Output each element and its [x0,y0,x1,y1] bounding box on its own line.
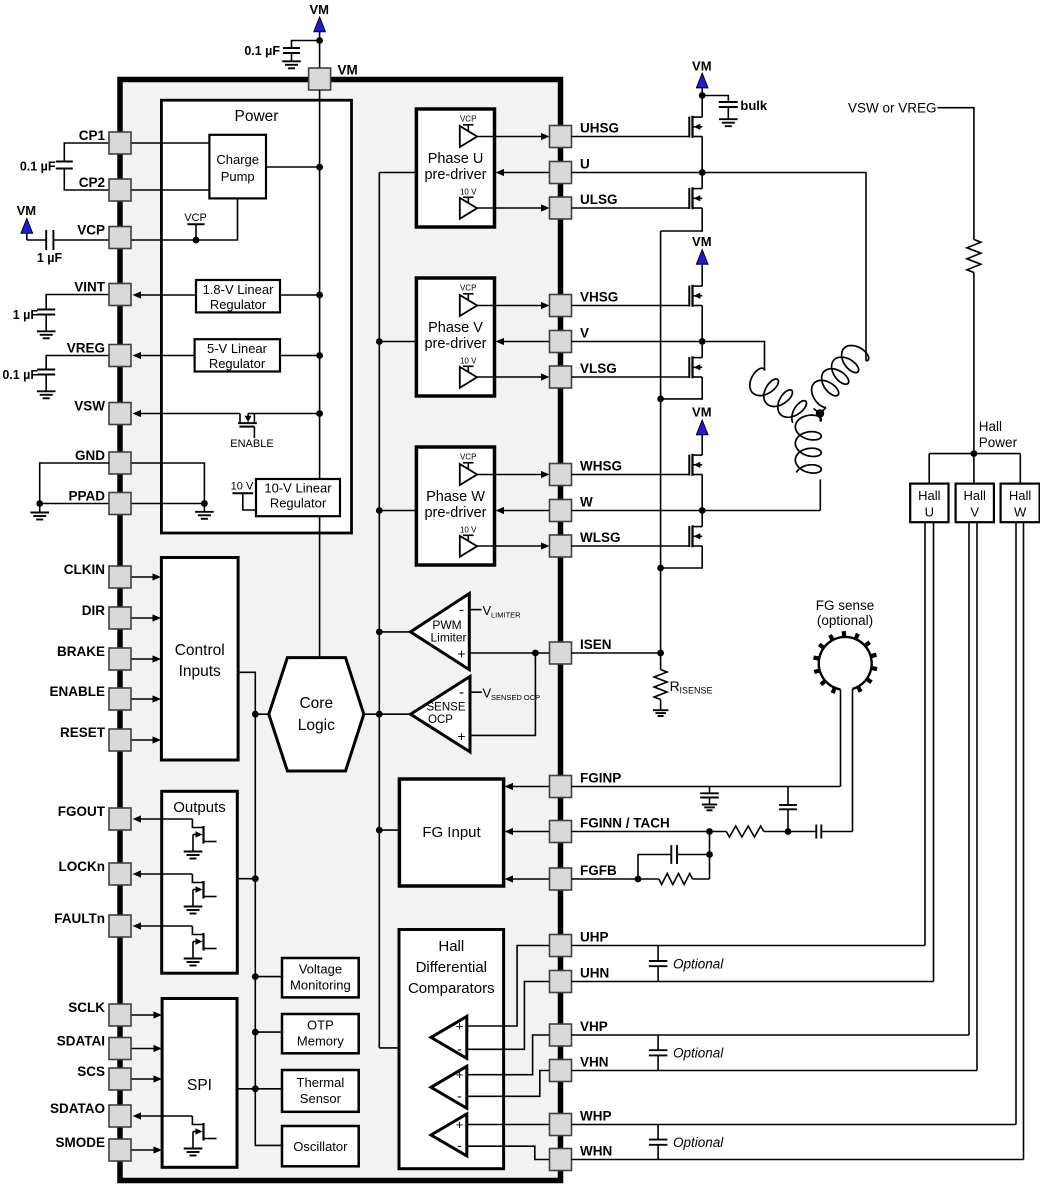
wire bus to Outputs block [237,878,255,880]
hall power node [971,419,1018,457]
svg-text:Phase V: Phase V [428,320,483,336]
1.8-V linear regulator [196,280,280,312]
svg-text:+: + [456,1019,464,1034]
motor winding W (bottom coil) [795,414,821,511]
pin RESET [60,725,131,751]
svg-text:Phase U: Phase U [428,151,484,167]
svg-text:GND: GND [75,448,105,463]
wire resistor to hall power node [973,273,975,454]
svg-text:FAULTn: FAULTn [54,911,105,926]
svg-text:0.1 µF: 0.1 µF [20,160,56,174]
svg-text:SENSE: SENSE [427,702,466,714]
capacitor 0.1 uF at VREG with ground [2,356,109,399]
wire SDATAI into SPI with arrow [131,1045,162,1052]
pin VREG [67,341,131,367]
pin FGFB [550,863,617,890]
hall sensor V [956,484,994,523]
wire regulator to VREG pin with arrow [133,352,195,359]
svg-text:SCLK: SCLK [68,1000,105,1015]
wire 1.8-V regulator to VM rail [280,292,323,299]
ground at R_ISENSE [653,700,669,717]
OTP memory block [282,1014,359,1053]
sense bus vertical [657,231,664,670]
pin V [550,326,590,353]
svg-text:bulk: bulk [740,98,767,113]
svg-text:Limiter: Limiter [430,631,466,645]
pin VM (top) [309,63,358,91]
Power block [161,100,351,533]
capacitor FGINP to FGINN [779,787,797,835]
svg-text:FGFB: FGFB [580,863,617,878]
svg-text:+: + [457,728,465,744]
svg-text:FG Input: FG Input [422,824,481,841]
capacitor 0.1 uF at VM pin with ground [244,41,319,69]
svg-text:VM: VM [338,63,358,78]
svg-text:SDATAO: SDATAO [50,1101,105,1116]
pin WHP [550,1109,612,1136]
V_LIMITER reference [469,603,521,620]
svg-text:VCP: VCP [184,212,207,224]
wire FG sense left lead to FGINP [840,690,842,787]
svg-text:V: V [580,326,589,341]
phase U pre-driver block [416,109,549,227]
pin ULSG [550,192,618,219]
svg-text:Power: Power [235,108,279,125]
Outputs block [162,791,238,973]
phase V pre-driver block [416,278,549,396]
VM supply arrow (bulk) [692,59,712,88]
phase W pre-driver block [416,447,549,565]
svg-text:V: V [970,505,979,520]
pin WLSG [550,530,621,557]
hall W output wires [1016,522,1024,1159]
wire charge pump to VCP pin [131,198,238,243]
FG Input block [399,779,503,886]
wire V node [572,306,765,371]
wire UHP to comparator U plus [504,946,550,1027]
hall sensor W [1001,484,1040,523]
svg-text:FGOUT: FGOUT [58,804,106,819]
optional capacitor VHP-VHN [649,1035,724,1071]
svg-text:Regulator: Regulator [270,496,327,511]
VCP supply tap symbol [184,212,207,240]
svg-text:Voltage: Voltage [299,962,342,977]
resistor hall power pullup [967,240,981,273]
VM supply arrow (VCP bypass) [17,203,37,233]
wire 5-V regulator to VM rail [280,352,323,359]
pin PPAD [68,489,131,515]
thermal sensor block [282,1070,359,1112]
svg-text:VCP: VCP [460,453,476,462]
wire PWM limiter output [379,631,410,633]
svg-text:Core: Core [299,695,333,712]
charge pump U2 [209,135,266,199]
svg-text:+: + [457,646,465,662]
wire VHN line [572,1070,978,1072]
svg-text:Hall: Hall [918,488,941,503]
svg-text:U: U [925,505,934,520]
wire bus to Voltage Monitoring [255,976,282,978]
svg-text:Comparators: Comparators [408,980,495,997]
svg-text:-: - [457,1040,462,1056]
wire FGINP line [572,786,841,788]
wire VM arrow to VM pin [316,32,323,68]
svg-text:U: U [580,157,590,172]
wire VHN to comparator V minus [504,1071,550,1097]
wire WHN line [572,1159,1024,1161]
IC body outline [120,80,561,1181]
svg-text:Monitoring: Monitoring [290,978,351,993]
svg-text:Optional: Optional [673,1046,724,1061]
VSW switch transistor (ENABLE) [133,410,324,450]
svg-text:VINT: VINT [74,280,106,295]
svg-text:VREG: VREG [67,341,105,356]
wire W pin into phase W pre-driver [496,507,550,514]
pin FGINN / TACH [550,816,670,843]
pin ISEN [550,637,612,664]
wire WHP line [572,1124,1017,1126]
svg-text:VM: VM [17,203,37,218]
wire UHN line [572,981,934,983]
svg-text:Sensor: Sensor [300,1091,342,1106]
wire DIR into Control Inputs with arrow [131,614,161,621]
svg-text:10 V: 10 V [231,481,254,493]
pin SMODE [55,1135,131,1161]
svg-text:BRAKE: BRAKE [57,644,105,659]
svg-text:VHP: VHP [580,1019,608,1034]
wire CLKIN into Control Inputs with arrow [131,573,161,580]
pin UHP [550,930,609,957]
svg-text:ISEN: ISEN [580,637,612,652]
svg-text:-: - [459,602,464,619]
wire Control Inputs to core logic [238,672,269,717]
svg-text:Charge: Charge [216,152,259,167]
wire FGFB into FG Input with arrow [505,875,550,882]
svg-text:Optional: Optional [673,957,724,972]
svg-text:+: + [456,1067,464,1082]
transistor Q1 high-side U [572,116,703,138]
svg-text:Phase W: Phase W [426,489,485,505]
svg-text:-: - [459,684,464,701]
svg-text:Pump: Pump [221,169,255,184]
FGFB feedback capacitor [635,845,713,882]
transistor Q3 high-side V [572,285,703,307]
svg-text:ENABLE: ENABLE [49,684,105,699]
wire core logic output to comparators [364,711,411,718]
svg-text:10 V: 10 V [460,188,477,197]
svg-text:VCP: VCP [77,223,105,238]
wire UHN to comparator U minus [504,982,550,1050]
svg-text:PPAD: PPAD [68,489,105,504]
wire CP2 to charge pump [131,189,209,191]
svg-text:Hall: Hall [963,488,986,503]
svg-text:VHSG: VHSG [580,290,618,305]
pin DIR [82,603,131,629]
transistor Q6 low-side W [572,511,703,548]
wire ISEN to sense resistor [572,652,661,654]
svg-text:-: - [457,1137,462,1153]
pin VCP [77,223,131,249]
svg-text:Hall: Hall [1009,488,1032,503]
svg-text:10-V Linear: 10-V Linear [264,481,332,496]
capacitor C_CP 0.1 uF between CP1 and CP2 [20,143,109,190]
pin CLKIN [64,562,131,588]
pin W [550,495,594,522]
motor winding V (left coil) [750,368,807,423]
wire 10-V regulator to core logic [319,516,321,657]
VM supply arrow (top) [309,2,329,32]
capacitor 1 uF at VINT with ground [13,295,109,339]
svg-text:UHP: UHP [580,930,609,945]
wire FG sense right lead [852,689,854,832]
open-drain transistor for FGOUT [184,819,217,859]
svg-text:SCS: SCS [77,1064,105,1079]
sense OCP comparator [411,677,471,752]
svg-text:Differential: Differential [416,959,487,976]
Hall differential comparators block [399,930,504,1169]
pin SDATAO [50,1101,131,1127]
wire LOCKn with arrow [133,870,193,877]
pin SCS [77,1064,131,1090]
svg-text:R: R [670,678,680,694]
svg-text:Control: Control [175,642,225,659]
svg-text:OCP: OCP [428,714,453,726]
control bus vertical [252,714,282,1145]
optional capacitor WHP-WHN [649,1125,724,1160]
pin LOCKn [59,859,132,885]
svg-text:W: W [580,495,593,510]
V_SENSED OCP reference [470,686,540,703]
svg-text:pre-driver: pre-driver [424,167,486,183]
svg-text:Regulator: Regulator [210,297,267,312]
svg-text:Oscillator: Oscillator [293,1139,348,1154]
svg-text:VCP: VCP [460,115,476,124]
svg-text:Hall: Hall [979,419,1002,434]
wire CP1 to charge pump [131,142,209,144]
svg-text:RESET: RESET [60,725,106,740]
svg-text:VLSG: VLSG [580,361,617,376]
pin FGINP [550,771,622,798]
svg-text:ISENSE: ISENSE [680,686,713,696]
svg-text:VM: VM [309,2,329,17]
PWM limiter comparator [411,594,470,670]
svg-text:1 µF: 1 µF [37,251,63,265]
open-drain transistor for FAULTn [184,926,217,966]
wire W node [572,475,821,514]
svg-text:WLSG: WLSG [580,530,621,545]
svg-text:VM: VM [692,234,712,249]
svg-text:0.1 µF: 0.1 µF [2,368,38,382]
wire VSW or VREG to resistor [938,108,974,240]
wire WHN to comparator W minus [504,1146,550,1159]
svg-text:LIMITER: LIMITER [491,611,521,620]
svg-text:FGINP: FGINP [580,771,621,786]
10 V supply tap symbol [231,481,256,511]
svg-text:ENABLE: ENABLE [230,438,273,450]
hall U output wires [925,522,934,981]
pin VLSG [550,361,617,388]
svg-text:LOCKn: LOCKn [59,859,106,874]
hall V output wires [969,522,977,1070]
pin SCLK [68,1000,131,1026]
pin UHSG [550,121,620,148]
svg-text:VSW or VREG: VSW or VREG [848,101,937,116]
svg-text:W: W [1014,505,1027,520]
motor star node [814,408,827,418]
transistor Q4 low-side V [572,342,703,379]
hall power distribution wires [929,454,1020,484]
wire VM to high-side V [701,264,703,286]
wire VHP to comparator V plus [504,1035,550,1075]
wire FGOUT with arrow [133,815,193,822]
pin BRAKE [57,644,131,670]
optional capacitor UHP-UHN [649,946,724,982]
svg-text:OTP: OTP [307,1018,334,1033]
svg-text:pre-driver: pre-driver [424,505,486,521]
svg-text:UHN: UHN [580,966,609,981]
wire UHP line [572,945,926,947]
wire FAULTn with arrow [133,922,193,929]
open-drain transistor for SDATAO [184,1116,217,1156]
wire V pin into phase V pre-driver [496,338,550,345]
VM supply arrow (phase V) [692,234,712,264]
svg-text:CLKIN: CLKIN [64,562,105,577]
svg-text:+: + [456,1117,464,1132]
wire GND/PPAD external ground [30,463,109,520]
Control Inputs block [161,558,238,761]
svg-text:WHSG: WHSG [580,459,622,474]
svg-text:1 µF: 1 µF [13,308,39,322]
5-V linear regulator [195,339,280,371]
svg-text:0.1 µF: 0.1 µF [244,44,280,58]
svg-text:SPI: SPI [187,1077,212,1094]
series capacitor on FGINN [816,825,852,839]
wire ENABLE into Control Inputs with arrow [131,695,161,702]
motor winding U (right coil) [812,346,869,408]
capacitor FGINP to ground [700,787,719,811]
pin VHSG [550,290,619,317]
svg-text:1.8-V Linear: 1.8-V Linear [203,282,274,297]
pin UHN [550,966,610,993]
hall comparator V [431,1066,504,1108]
pin WHSG [550,459,623,486]
wire FGINN into FG Input with arrow [505,828,550,835]
FGFB feedback resistor [572,832,710,885]
transistor Q5 high-side W [572,454,703,476]
VM rail from VM pin [319,90,321,479]
svg-text:Inputs: Inputs [179,663,221,680]
pre-driver feed bus [376,173,417,1048]
transistor Q2 low-side U [572,173,703,210]
wire VM to high-side W [701,435,703,455]
pin FGOUT [58,804,131,830]
open-drain transistor for LOCKn [184,874,217,914]
pin U [550,157,590,184]
wire SCLK into SPI with arrow [131,1011,162,1018]
svg-text:CP1: CP1 [79,128,106,143]
wire WHP to comparator W plus [504,1124,550,1126]
svg-text:(optional): (optional) [817,613,873,628]
pin GND [75,448,131,474]
svg-text:Regulator: Regulator [209,356,266,371]
core logic block [269,658,364,771]
wire U node [572,137,867,362]
wire SDATAO with arrow [133,1112,193,1119]
10-V linear regulator [256,479,340,516]
SPI block [162,999,237,1168]
VM supply arrow (phase W) [692,405,712,435]
svg-text:Power: Power [979,435,1018,450]
svg-text:UHSG: UHSG [580,121,619,136]
VSW or VREG label [848,101,937,116]
voltage monitoring block [282,958,359,997]
wire bus to OTP Memory [255,1031,282,1033]
wire low-side V source to sense bus [661,377,703,399]
wire VM to high-side U [699,88,706,117]
svg-text:FGINN / TACH: FGINN / TACH [580,816,670,831]
svg-text:CP2: CP2 [79,175,105,190]
svg-text:VM: VM [692,59,712,74]
pin WHN [550,1144,613,1171]
wire charge pump to VM rail [266,164,323,171]
svg-text:SDATAI: SDATAI [57,1034,105,1049]
wire low-side W source to sense bus [661,546,703,568]
svg-text:DIR: DIR [82,603,106,618]
FG sense wheel (optional) [814,598,878,693]
pin FAULTn [54,911,131,937]
wire BRAKE into Control Inputs with arrow [131,655,161,662]
pin VINT [74,280,131,306]
wire GND internal ground [131,463,214,519]
wire U pin into phase U pre-driver [496,169,550,176]
resistor R_ISENSE [654,670,712,700]
svg-text:Optional: Optional [673,1135,724,1150]
hall sensor U [910,484,948,523]
oscillator block [282,1126,359,1166]
pin ENABLE [49,684,131,710]
hall comparator U [431,1016,504,1058]
svg-text:-: - [457,1087,462,1103]
wire SPI to Thermal Sensor via bus [237,1088,282,1090]
svg-text:FG sense: FG sense [816,598,875,613]
svg-text:5-V Linear: 5-V Linear [207,341,268,356]
wire FGINN line with series resistor [572,826,817,837]
svg-text:Memory: Memory [297,1034,344,1049]
svg-text:10 V: 10 V [460,357,477,366]
svg-text:VHN: VHN [580,1055,609,1070]
svg-text:VSW: VSW [74,399,105,414]
svg-text:VCP: VCP [460,284,476,293]
pin VHP [550,1019,608,1046]
hall comparator W [431,1114,504,1156]
svg-text:ULSG: ULSG [580,192,618,207]
wire SMODE into SPI with arrow [131,1146,162,1153]
pin CP2 [79,175,131,201]
svg-text:SENSED OCP: SENSED OCP [491,693,540,702]
svg-text:pre-driver: pre-driver [424,336,486,352]
svg-text:Logic: Logic [298,717,335,734]
wire VHP line [572,1034,970,1036]
wire RESET into Control Inputs with arrow [131,736,161,743]
pin SDATAI [57,1034,131,1060]
svg-text:10 V: 10 V [460,526,477,535]
bulk capacitor [702,96,768,127]
svg-text:Outputs: Outputs [173,799,226,816]
pin VSW [74,399,131,425]
svg-text:WHP: WHP [580,1109,612,1124]
wire SCS into SPI with arrow [131,1075,162,1082]
wire low-side U source to sense bus [661,208,703,231]
